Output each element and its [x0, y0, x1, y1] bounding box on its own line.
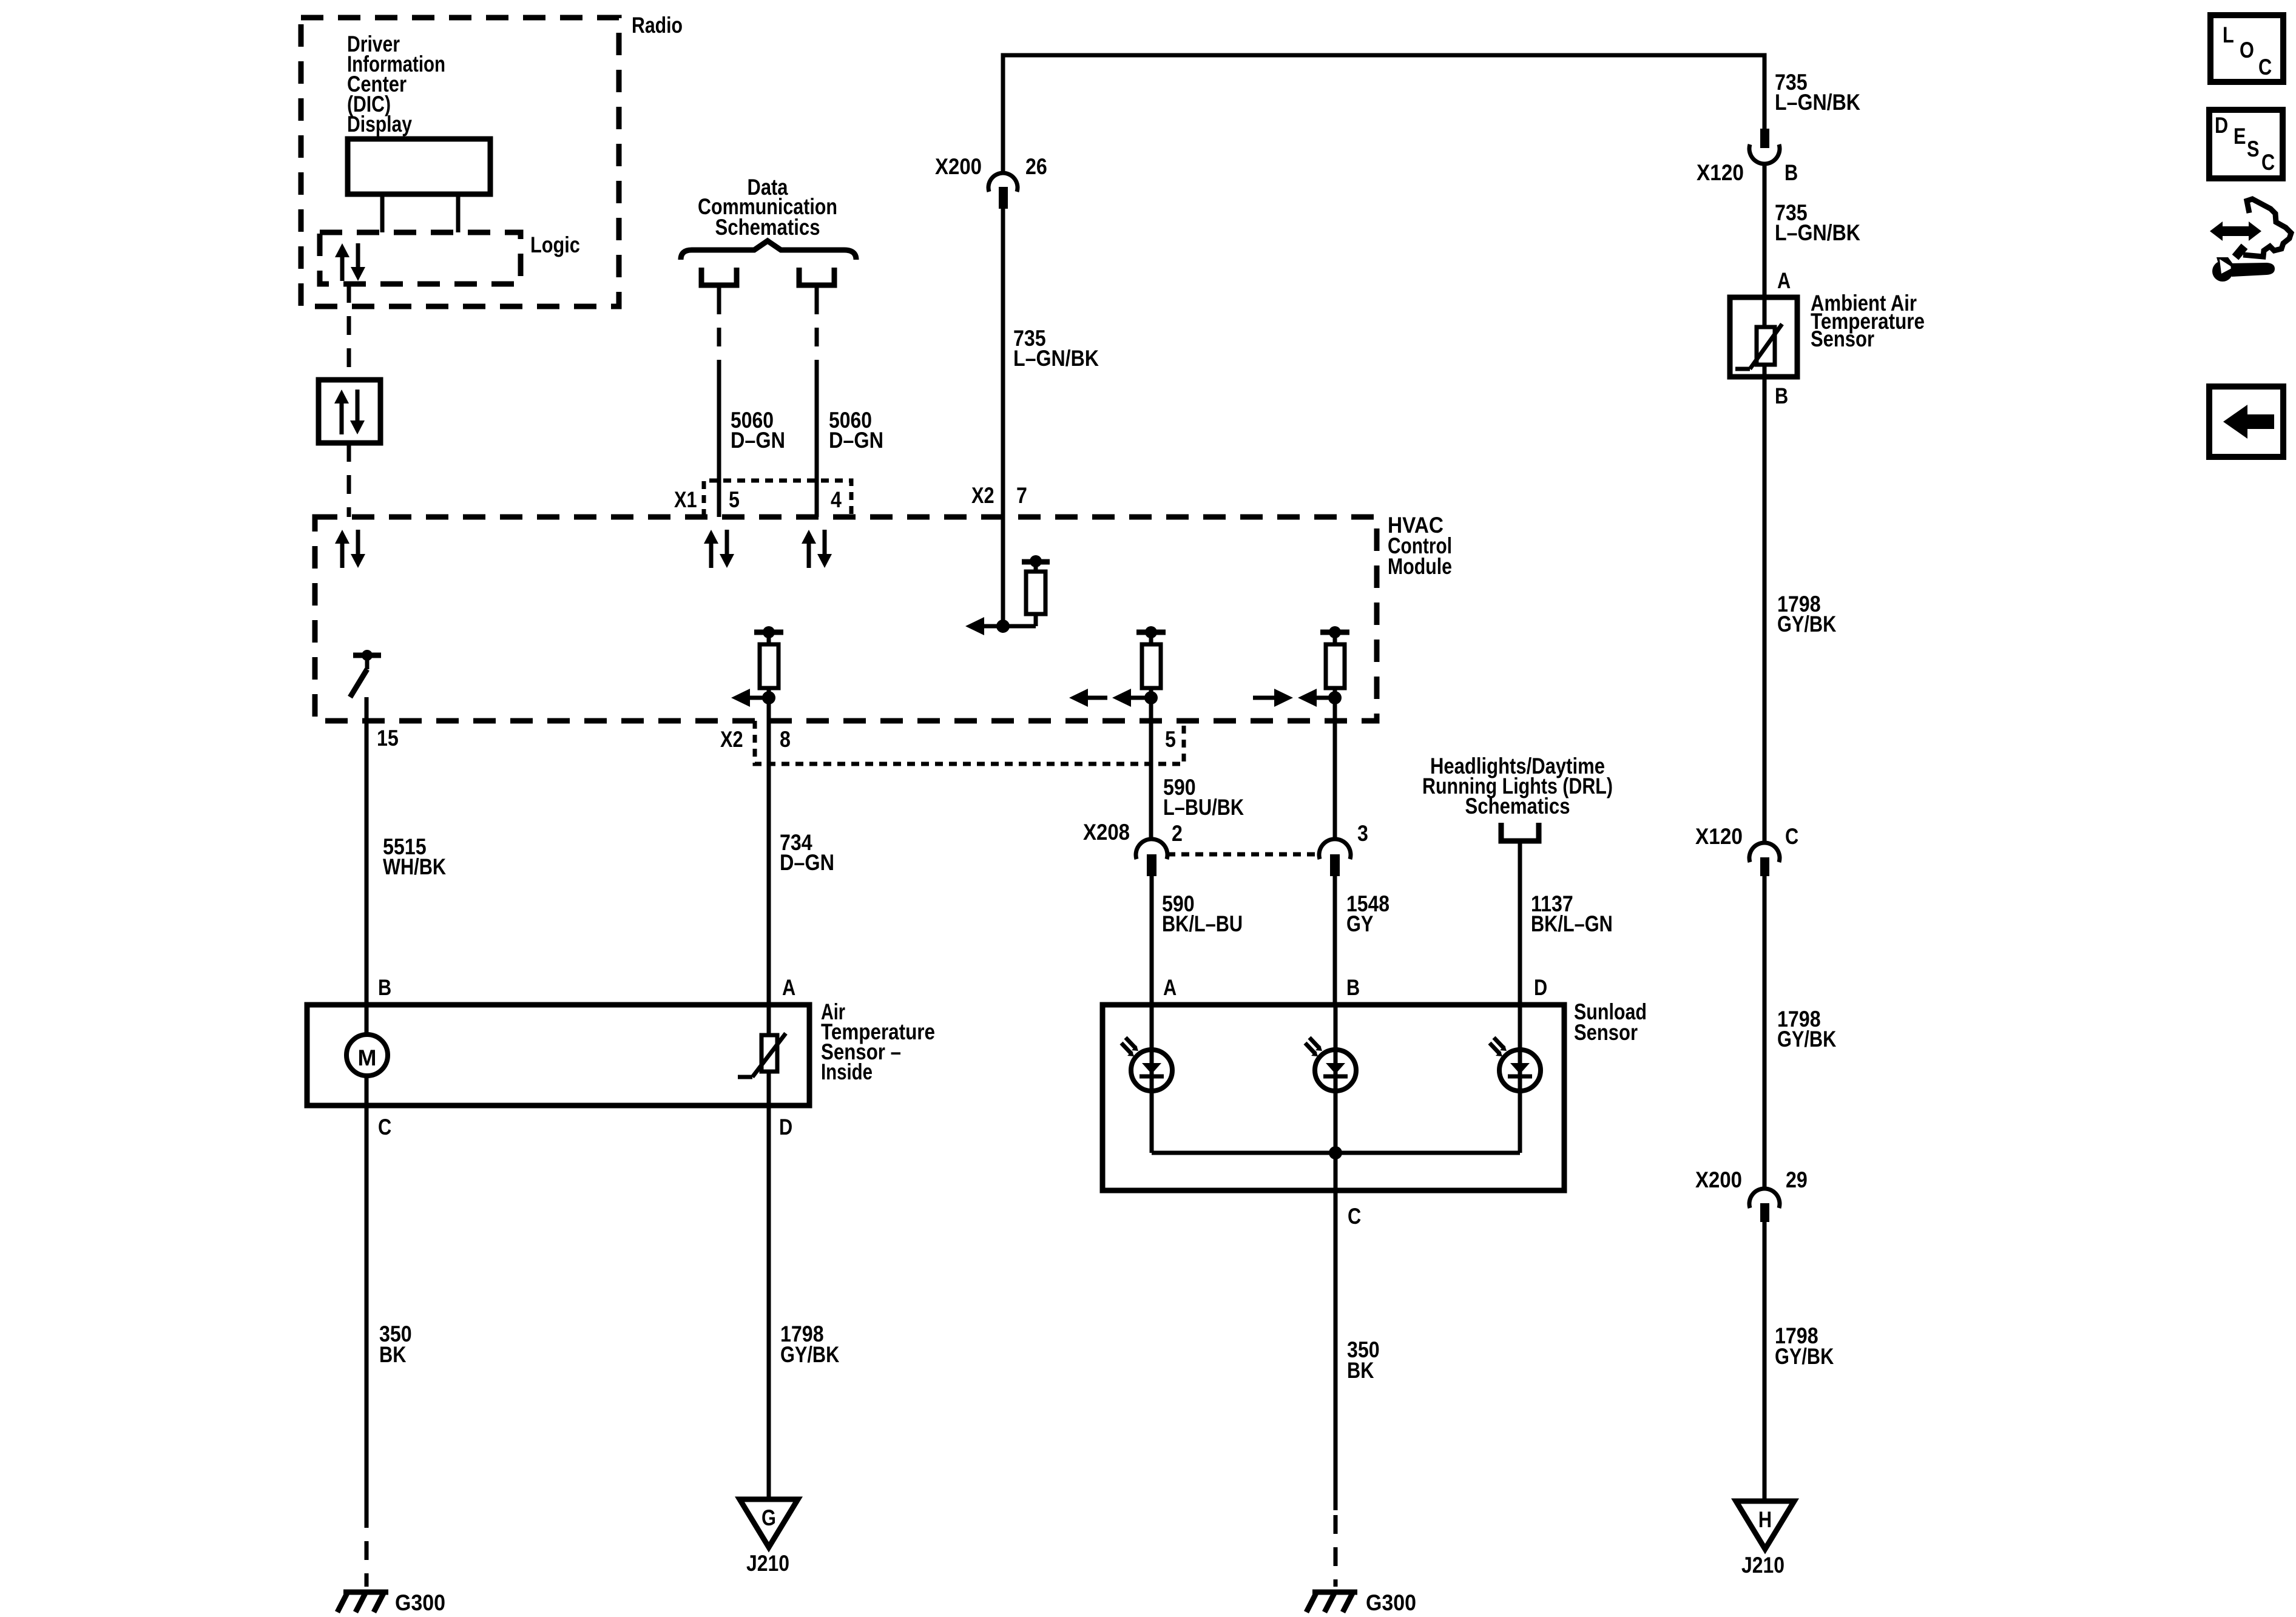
photodiode at x=1898	[1150, 1005, 1154, 1153]
svg-text:O: O	[2240, 38, 2254, 62]
svg-text:C: C	[1348, 1204, 1361, 1229]
DCS connector left	[701, 268, 737, 285]
wire 590 L-BU/BK	[1149, 698, 1153, 840]
svg-text:5: 5	[729, 487, 740, 512]
ground J210 H	[1736, 1501, 1794, 1549]
wire dashed DCS left	[717, 295, 721, 366]
wire DIC leg right	[456, 194, 461, 232]
svg-text:D: D	[1534, 975, 1547, 1000]
svg-text:Sensor: Sensor	[1574, 1020, 1638, 1045]
svg-text:D–GN: D–GN	[731, 428, 785, 453]
ground G300 left	[343, 1590, 388, 1595]
DESC nav box	[2209, 110, 2283, 178]
svg-text:26: 26	[1025, 154, 1047, 179]
HVAC Control Module dashed box	[315, 517, 1377, 721]
wire 1798 to J210 H	[1763, 1222, 1767, 1501]
svg-text:G300: G300	[1366, 1590, 1416, 1615]
wire 5515	[365, 697, 369, 1509]
signal arrow R4 inbound	[1253, 696, 1274, 700]
svg-text:BK/L–BU: BK/L–BU	[1162, 911, 1243, 936]
svg-text:B: B	[1784, 160, 1798, 185]
svg-text:B: B	[1775, 383, 1788, 408]
svg-text:D: D	[2215, 113, 2228, 138]
wire 1798 to X200 29	[1763, 876, 1767, 1189]
svg-text:L–GN/BK: L–GN/BK	[1013, 346, 1099, 371]
thermistor RT2 ambient	[1763, 297, 1767, 377]
svg-text:GY/BK: GY/BK	[780, 1342, 840, 1367]
connector X120 pin B inverted	[1760, 129, 1769, 148]
wire 734	[767, 698, 771, 1005]
wire 5060 left	[717, 366, 721, 517]
wire 1798 to J210 G	[767, 1106, 771, 1499]
node junction at x=1897	[1144, 691, 1158, 704]
node junction J1	[996, 619, 1010, 633]
svg-text:H: H	[1758, 1507, 1772, 1532]
svg-text:L: L	[2223, 22, 2234, 47]
DCS connector right	[799, 268, 834, 285]
svg-text:7: 7	[1016, 483, 1027, 508]
wire sunload common bus	[1152, 1151, 1520, 1155]
Ambient Air Temperature Sensor box	[1730, 297, 1797, 377]
wire X2-7 internal	[1001, 517, 1005, 626]
svg-text:Inside: Inside	[821, 1059, 873, 1084]
svg-text:G300: G300	[395, 1590, 445, 1615]
wire DIC leg left	[380, 194, 385, 232]
wire dashed to G300 center	[1334, 1515, 1338, 1587]
serial data arrow box	[319, 380, 380, 443]
wire 735 to ambient sensor	[1763, 163, 1767, 297]
svg-text:GY/BK: GY/BK	[1775, 1344, 1834, 1369]
svg-text:J210: J210	[746, 1551, 789, 1576]
svg-text:L–BU/BK: L–BU/BK	[1163, 795, 1244, 820]
serial data arrows X1-5	[709, 543, 714, 568]
svg-text:8: 8	[780, 727, 791, 752]
svg-text:Sensor: Sensor	[1811, 326, 1874, 351]
svg-text:2: 2	[1172, 821, 1183, 846]
wire dashed DCS right	[815, 295, 819, 366]
wire 590 BK/L-BU	[1150, 876, 1154, 1005]
Air Temperature Sensor Inside box	[307, 1005, 809, 1106]
svg-text:D: D	[779, 1115, 792, 1139]
wire sunload C out	[1334, 1153, 1338, 1510]
wire 1548 GY	[1333, 876, 1337, 1005]
svg-text:C: C	[378, 1115, 391, 1139]
DIC display block	[348, 139, 490, 194]
photodiode at x=2201	[1334, 1005, 1338, 1153]
svg-text:Schematics: Schematics	[1465, 794, 1570, 819]
svg-text:C: C	[2258, 55, 2272, 79]
svg-text:Display: Display	[347, 112, 412, 137]
DRL connector	[1501, 823, 1539, 841]
svg-text:X2: X2	[720, 727, 743, 752]
svg-text:A: A	[782, 975, 795, 1000]
svg-text:A: A	[1163, 975, 1177, 1000]
svg-text:L–GN/BK: L–GN/BK	[1775, 90, 1860, 115]
wire dashed arrow box to HVAC module	[347, 443, 351, 517]
wire dashed to G300 left	[365, 1509, 369, 1587]
wire 5060 right	[815, 366, 819, 517]
wire 735 to module	[1001, 209, 1005, 517]
svg-text:15: 15	[377, 726, 399, 751]
Logic dashed box	[320, 232, 521, 284]
serial data arrows X1-4	[807, 543, 811, 568]
signal arrow R2 left	[750, 696, 769, 700]
photodiode at x=2505	[1518, 1005, 1522, 1153]
ground J210 G	[740, 1499, 798, 1547]
svg-text:GY: GY	[1346, 911, 1374, 936]
back arrow nav box	[2209, 387, 2283, 457]
resistor R1 HVAC internal	[1022, 559, 1050, 565]
svg-text:C: C	[2261, 150, 2275, 175]
svg-text:X200: X200	[935, 154, 982, 179]
signal arrow R3 detached	[1088, 696, 1107, 700]
svg-text:X120: X120	[1697, 160, 1744, 185]
svg-text:B: B	[1346, 975, 1360, 1000]
wire 1137 BK/L-GN	[1518, 852, 1522, 1005]
ground G300 center	[1312, 1590, 1357, 1595]
svg-text:G: G	[761, 1505, 776, 1530]
svg-text:3: 3	[1357, 821, 1368, 846]
svg-text:E: E	[2234, 124, 2246, 149]
wire dashed radio to arrow box	[347, 284, 351, 380]
svg-text:X1: X1	[674, 487, 697, 512]
LOC nav box	[2210, 15, 2283, 82]
svg-text:5: 5	[1165, 727, 1176, 752]
svg-text:X120: X120	[1695, 824, 1743, 849]
svg-text:4: 4	[831, 487, 842, 512]
resistor at x=2200 HVAC internal	[1320, 630, 1349, 635]
thermistor RT1 inside	[767, 1005, 771, 1106]
svg-text:D–GN: D–GN	[829, 428, 883, 453]
resistor at x=1267 HVAC internal	[754, 630, 783, 635]
signal arrow R3 attached	[1131, 696, 1151, 700]
svg-text:A: A	[1777, 268, 1791, 293]
node junction sunload C	[1329, 1146, 1342, 1160]
svg-text:Logic: Logic	[530, 232, 580, 257]
svg-text:BK: BK	[379, 1342, 407, 1367]
svg-text:X2: X2	[971, 483, 994, 508]
svg-text:S: S	[2247, 137, 2260, 161]
svg-text:BK: BK	[1347, 1358, 1374, 1383]
diagnostic connector tool icon	[2221, 226, 2252, 236]
svg-text:GY/BK: GY/BK	[1777, 612, 1837, 636]
X1 connector dotted box	[704, 481, 851, 517]
switch S1 pin 15	[353, 653, 381, 658]
svg-text:L–GN/BK: L–GN/BK	[1775, 220, 1860, 245]
X2 bottom connector dotted box	[755, 721, 1184, 764]
signal arrow R4 attached	[1317, 696, 1335, 700]
svg-text:Module: Module	[1388, 554, 1452, 579]
svg-text:B: B	[378, 975, 391, 1000]
logic serial-data arrows	[340, 257, 345, 281]
svg-text:X208: X208	[1083, 820, 1130, 845]
svg-text:29: 29	[1786, 1167, 1808, 1192]
svg-text:BK/L–GN: BK/L–GN	[1531, 911, 1613, 936]
svg-text:Radio: Radio	[632, 13, 683, 38]
signal arrow J1 left	[984, 624, 1003, 629]
wire 1798 to X120 C	[1763, 377, 1767, 843]
Radio module dashed box	[301, 18, 619, 306]
node junction at x=1267	[762, 691, 775, 704]
svg-text:WH/BK: WH/BK	[383, 854, 446, 879]
svg-text:GY/BK: GY/BK	[1777, 1027, 1837, 1052]
node junction at x=2200	[1328, 691, 1342, 704]
Sunload Sensor box	[1102, 1005, 1564, 1190]
svg-text:C: C	[1785, 824, 1798, 849]
svg-text:Schematics: Schematics	[715, 215, 820, 240]
brace	[681, 241, 856, 260]
wire sunload B upper	[1333, 698, 1337, 839]
dashed link X208	[1167, 852, 1318, 857]
resistor at x=1897 HVAC internal	[1136, 630, 1166, 635]
svg-text:M: M	[358, 1045, 377, 1070]
serial data arrows into module left	[340, 543, 345, 568]
svg-text:D–GN: D–GN	[780, 850, 834, 875]
svg-text:X200: X200	[1695, 1167, 1742, 1192]
svg-text:J210: J210	[1741, 1553, 1784, 1578]
wire top bus	[1003, 55, 1764, 174]
blower motor M	[365, 1005, 369, 1106]
